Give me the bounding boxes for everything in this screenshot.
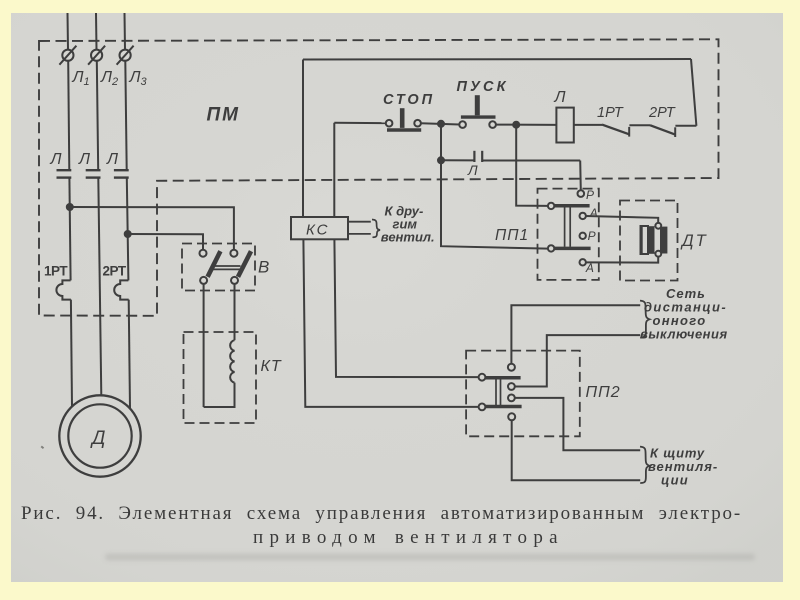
thermal relay heater 1RT <box>56 280 71 299</box>
wire 2RT to bus drop <box>675 125 696 127</box>
svg-text:В: В <box>258 258 269 277</box>
svg-text:приводом вентилятора: приводом вентилятора <box>253 527 564 548</box>
svg-text:2РТ: 2РТ <box>648 105 676 121</box>
button STOP bridge bar <box>387 128 421 131</box>
svg-text:вентил.: вентил. <box>381 230 435 245</box>
PP2 bridge bars <box>485 378 522 407</box>
KC right stub upper <box>348 221 371 223</box>
switch B dashed box <box>182 244 255 291</box>
wire KC left drop to PP2 lower-left <box>303 239 479 407</box>
wire PP2 mid pin1 to net <box>515 335 640 386</box>
svg-text:ции: ции <box>661 473 689 488</box>
wire PP1 pin A1 to DT <box>586 216 658 223</box>
svg-text:2РТ: 2РТ <box>103 264 127 279</box>
button STOP contacts <box>386 120 421 127</box>
contactor main contact L phase3 <box>114 170 129 177</box>
sensor DT terminals <box>655 223 661 257</box>
junction node on L3 <box>125 231 131 237</box>
wire phase L2 middle <box>97 61 98 170</box>
resistor box KC <box>291 217 348 239</box>
wire PUSK to coil L <box>496 124 557 126</box>
svg-text:А: А <box>589 206 598 220</box>
wire aux contact to PP1 pin R <box>579 161 582 191</box>
svg-text:Р: Р <box>588 229 596 243</box>
contact 1RT blade <box>602 125 629 135</box>
wire switch B left pole down <box>203 284 205 407</box>
aux contact L wire right <box>482 160 580 162</box>
brace k schitu <box>640 447 650 483</box>
wire phase L3 lower <box>127 178 129 281</box>
fuse L2 <box>88 46 105 65</box>
fuse L3 <box>117 46 134 65</box>
wire coil L to 1RT contact <box>574 124 602 126</box>
wire phase L3 to motor <box>129 300 130 409</box>
svg-text:Л: Л <box>554 89 566 106</box>
button PUSK bridge bar <box>461 115 496 118</box>
connector PP2 dashed box <box>466 351 580 437</box>
svg-text:КТ: КТ <box>261 358 282 375</box>
svg-text:ПП2: ПП2 <box>586 384 621 401</box>
faint bleed-through smudge bottom <box>105 554 755 561</box>
junction node aux contact <box>438 157 444 163</box>
wire phase L1 upper <box>67 13 70 50</box>
svg-text:Рис. 94. Элементная схема упра: Рис. 94. Элементная схема управления авт… <box>21 503 742 524</box>
button STOP plunger <box>400 108 405 128</box>
wire L1 to switch B right pole <box>70 207 234 250</box>
aux contact L wire left <box>441 159 474 161</box>
wire phase L2 to motor <box>98 178 101 396</box>
contactor main contact L phase2 <box>86 170 101 177</box>
sensor DT dashed box <box>620 201 678 281</box>
svg-text:ПП1: ПП1 <box>495 227 529 244</box>
contact 2RT blade <box>650 125 675 134</box>
svg-text:ДТ: ДТ <box>680 232 708 250</box>
wire STOP to PUSK <box>421 123 460 124</box>
sensor DT body <box>641 226 667 254</box>
wire switch B right pole to coil KT <box>234 284 236 340</box>
svg-text:1РТ: 1РТ <box>44 264 68 279</box>
svg-text:Л: Л <box>50 151 62 168</box>
svg-text:1РТ: 1РТ <box>597 105 624 121</box>
wire phase L1 lower <box>69 178 70 281</box>
wire KC right drop to PP2 upper-left <box>334 239 479 377</box>
svg-text:Л: Л <box>467 162 478 178</box>
speck near motor <box>41 446 45 449</box>
wire coil KT bottom <box>204 383 235 407</box>
wire phase L1 to motor <box>71 300 72 407</box>
svg-text:Л: Л <box>106 151 118 168</box>
contact 1RT tick <box>628 127 630 137</box>
svg-text:выключения: выключения <box>640 327 728 342</box>
contact 2RT tick <box>674 127 676 137</box>
svg-text:Д: Д <box>90 428 105 449</box>
enclosure PM dashed boundary <box>39 39 719 316</box>
svg-text:ПУСК: ПУСК <box>457 79 508 95</box>
wire PP1 pin A2 to DT <box>586 257 658 263</box>
switch B terminals <box>200 250 239 284</box>
wire STOP left to KC drop <box>333 123 335 217</box>
wire phase L3 middle <box>125 61 126 170</box>
junction node on L1 <box>67 204 73 210</box>
PP1 pin R top <box>578 190 585 197</box>
fuse L1 <box>59 46 76 65</box>
svg-text:Р: Р <box>586 188 594 202</box>
svg-text:ПМ: ПМ <box>207 105 241 126</box>
relay coil L <box>556 108 573 143</box>
junction node branch 516 <box>513 122 519 128</box>
connector PP1 dashed box <box>538 189 599 280</box>
PP1 right pins A R A <box>580 213 586 266</box>
thermal relay heater 2RT <box>114 280 129 299</box>
svg-text:А: А <box>585 261 594 275</box>
junction node branch 441 <box>438 121 444 127</box>
control bus right drop <box>691 59 696 126</box>
wire phase L2 upper <box>95 13 98 50</box>
svg-text:КС: КС <box>306 222 330 239</box>
PP1 left pins <box>548 203 554 252</box>
wire branch 441 down <box>441 124 548 249</box>
KC right stub lower <box>348 233 371 235</box>
motor D outer circle <box>59 395 140 476</box>
wire PP2 mid pin2 to net <box>515 398 640 450</box>
wire L3 to switch B left pole <box>128 234 203 250</box>
contactor main contact L phase1 <box>57 170 72 177</box>
button PUSK plunger <box>475 95 480 115</box>
wire PP2 bottom pin to net <box>512 420 641 480</box>
button STOP wire left <box>334 122 386 124</box>
motor D inner circle <box>68 404 131 467</box>
switch B link bar <box>213 266 241 269</box>
aux contact L ticks <box>474 151 482 162</box>
PP1 bridge bars <box>554 206 591 249</box>
wire phase L1 middle <box>68 61 69 170</box>
PP2 pins <box>479 364 516 421</box>
control bus top wire <box>303 58 691 61</box>
svg-text:СТОП: СТОП <box>383 92 435 108</box>
wire phase L3 upper <box>124 13 127 50</box>
PP1 link bars <box>565 208 571 247</box>
switch B blades <box>208 251 251 277</box>
brace set distanc <box>640 301 650 338</box>
coil KT winding <box>230 340 234 382</box>
button PUSK contacts <box>459 121 496 128</box>
svg-text:Л: Л <box>78 151 90 168</box>
brace KC <box>372 220 380 238</box>
relay KT dashed box <box>184 332 257 423</box>
wire PP2 top pin to net <box>511 305 640 364</box>
wire branch 516 to PP1 <box>516 125 548 206</box>
PP2 link bars <box>496 379 501 405</box>
control bus left drop to KC <box>302 60 304 218</box>
wire 1RT to 2RT <box>629 124 650 126</box>
